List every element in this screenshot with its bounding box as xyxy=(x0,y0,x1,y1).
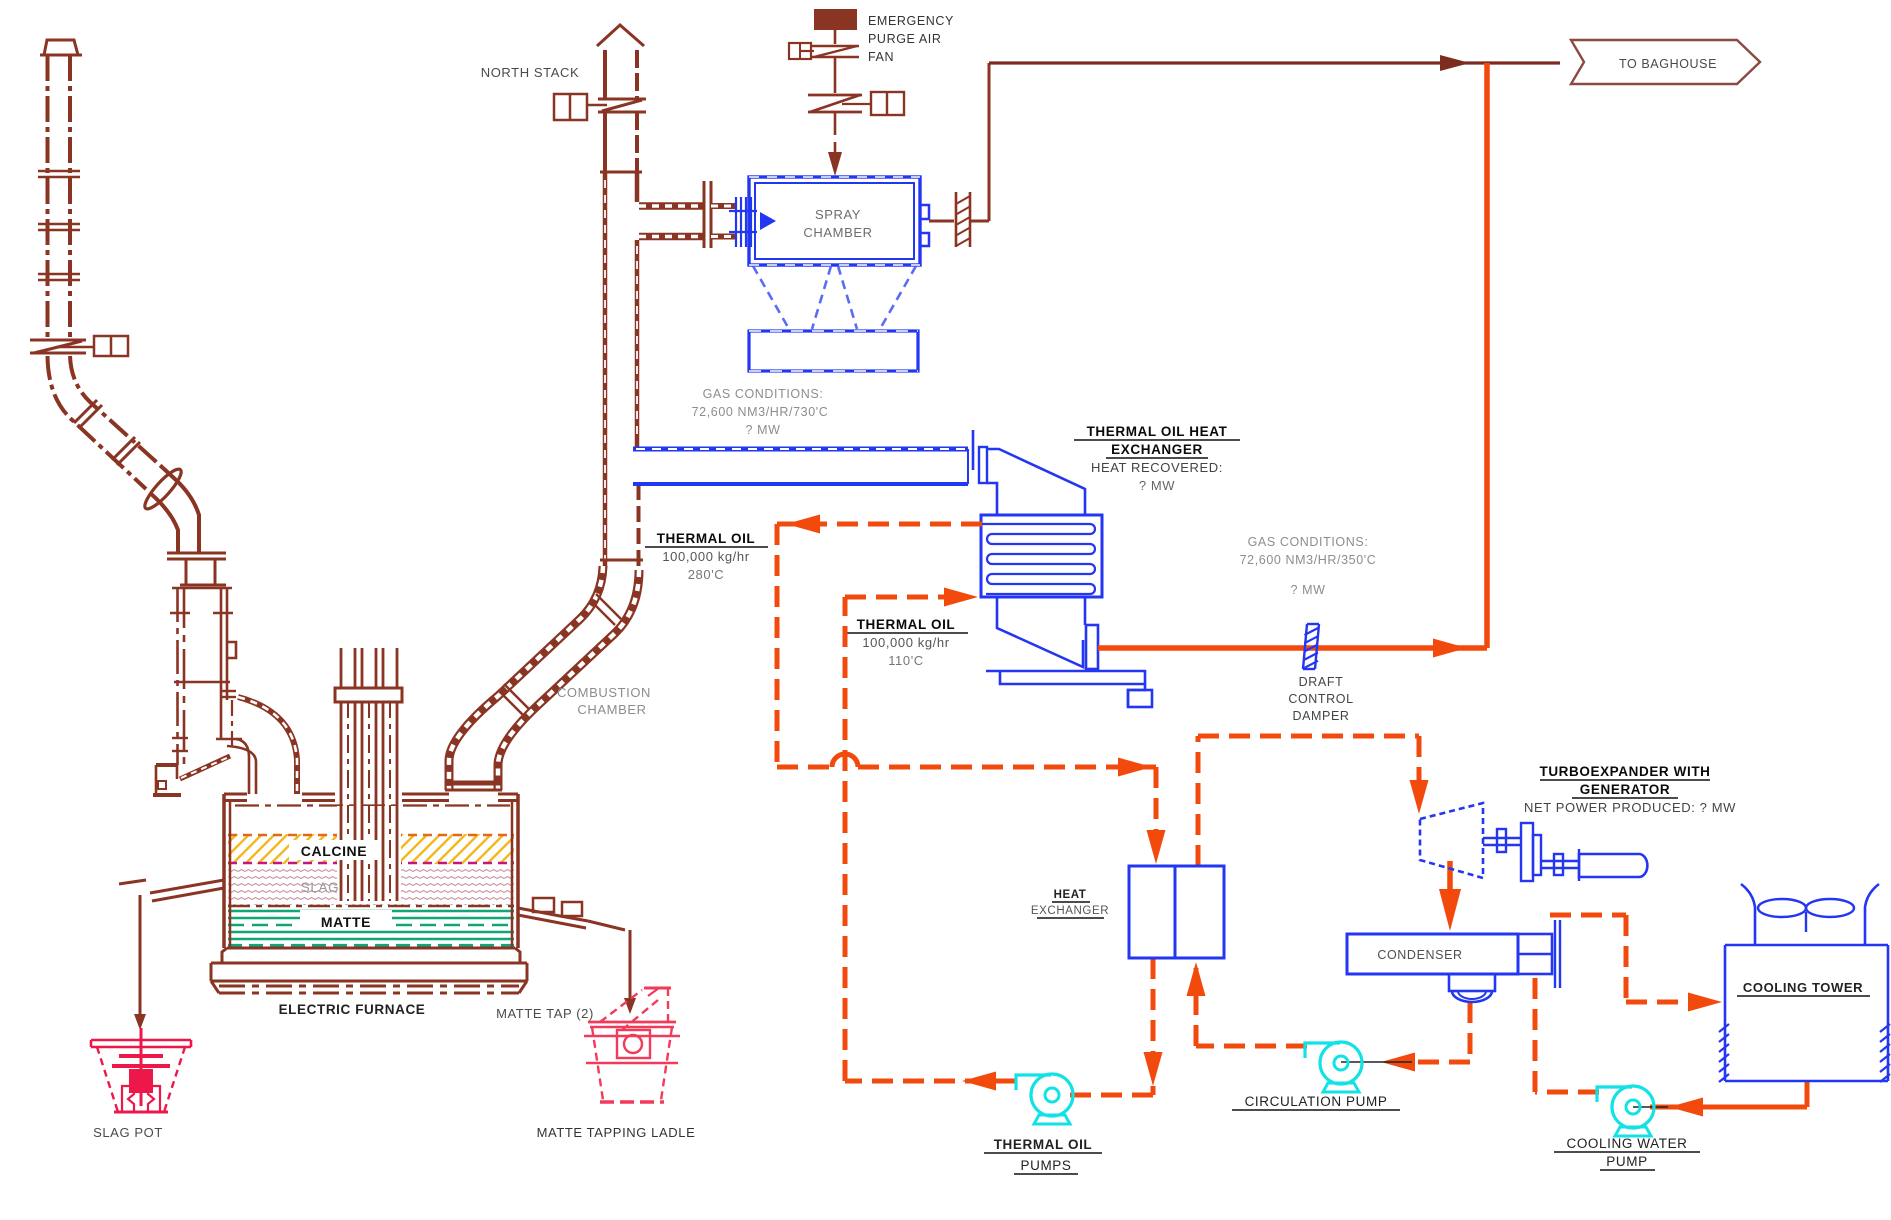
electric furnace body xyxy=(211,794,527,993)
label: turboexpander xyxy=(1524,764,1736,815)
label: circulation pump xyxy=(1232,1094,1400,1110)
duct to thermal oil heat exchanger xyxy=(633,430,987,484)
svg-text:CIRCULATION PUMP: CIRCULATION PUMP xyxy=(1245,1094,1388,1109)
cooling tower xyxy=(1719,884,1890,1082)
spray chamber xyxy=(729,177,929,265)
label: gas conditions 730 xyxy=(692,387,829,437)
svg-text:MATTE TAP (2): MATTE TAP (2) xyxy=(496,1006,594,1021)
svg-text:? MW: ? MW xyxy=(1139,478,1175,493)
oil return HX to thermal oil pumps xyxy=(1060,958,1163,1095)
svg-text:COMBUSTION: COMBUSTION xyxy=(557,685,651,700)
turbine exhaust to condenser xyxy=(1439,861,1461,931)
svg-text:? MW: ? MW xyxy=(1290,583,1325,597)
draft control damper xyxy=(1303,624,1319,669)
label: gas conditions 350 xyxy=(1240,535,1377,597)
cooling water pump discharge xyxy=(1535,976,1599,1092)
svg-text:NORTH STACK: NORTH STACK xyxy=(481,65,580,80)
svg-text:100,000 kg/hr: 100,000 kg/hr xyxy=(862,635,949,650)
hot water to cooling tower xyxy=(1550,915,1722,1012)
svg-text:TURBOEXPANDER WITH: TURBOEXPANDER WITH xyxy=(1539,764,1710,779)
label: thermal oil pumps xyxy=(984,1137,1102,1174)
svg-text:CONTROL: CONTROL xyxy=(1288,692,1353,706)
matte tapping ladle xyxy=(584,988,680,1102)
svg-text:SPRAY: SPRAY xyxy=(815,207,861,222)
svg-text:EXCHANGER: EXCHANGER xyxy=(1111,442,1203,457)
svg-text:FAN: FAN xyxy=(868,50,894,64)
svg-text:110'C: 110'C xyxy=(888,653,924,668)
thermal oil pump xyxy=(1016,1074,1073,1124)
svg-text:COOLING TOWER: COOLING TOWER xyxy=(1743,980,1863,995)
vapor line to turboexpander xyxy=(1198,736,1429,866)
label: matte tapping ladle xyxy=(537,1125,696,1140)
label: combustion chamber xyxy=(557,685,651,717)
svg-text:GAS CONDITIONS:: GAS CONDITIONS: xyxy=(1248,535,1369,549)
turboexpander with generator xyxy=(1420,803,1647,881)
tower basin to cooling water pump xyxy=(1633,1081,1807,1117)
svg-text:DAMPER: DAMPER xyxy=(1292,709,1349,723)
label: matte xyxy=(300,910,392,930)
matte tap line xyxy=(518,898,636,1014)
svg-text:NET POWER PRODUCED: ? MW: NET POWER PRODUCED: ? MW xyxy=(1524,800,1736,815)
label: cooling water pump xyxy=(1554,1136,1700,1170)
north stack xyxy=(554,25,646,568)
svg-text:CALCINE: CALCINE xyxy=(301,843,367,859)
to baghouse badge xyxy=(1571,40,1760,84)
combustion chamber duct xyxy=(445,560,643,790)
svg-text:ELECTRIC FURNACE: ELECTRIC FURNACE xyxy=(279,1002,426,1017)
svg-text:COOLING WATER: COOLING WATER xyxy=(1566,1136,1687,1151)
label: draft control damper xyxy=(1288,675,1353,723)
svg-text:MATTE: MATTE xyxy=(321,914,371,930)
svg-text:EXCHANGER: EXCHANGER xyxy=(1031,905,1109,917)
flue gas line to baghouse xyxy=(929,55,1560,247)
condenser xyxy=(1347,920,1560,1002)
svg-text:TO BAGHOUSE: TO BAGHOUSE xyxy=(1619,57,1717,71)
svg-text:THERMAL OIL: THERMAL OIL xyxy=(857,617,956,632)
electrodes xyxy=(335,648,402,903)
label: emergency fan xyxy=(868,14,954,64)
label: matte tap xyxy=(496,1006,594,1021)
label: thermal oil heat exchanger xyxy=(1074,424,1240,493)
svg-text:DRAFT: DRAFT xyxy=(1299,675,1344,689)
oil supply 280C to heat exchanger xyxy=(777,515,1166,865)
svg-text:THERMAL OIL: THERMAL OIL xyxy=(994,1137,1093,1152)
circulation pump xyxy=(1305,1042,1362,1092)
slag tap line xyxy=(119,880,224,1030)
label: slag xyxy=(301,880,339,895)
duct: north stack to spray chamber xyxy=(639,181,737,248)
label: heat exchanger xyxy=(1031,889,1109,918)
label: calcine xyxy=(289,840,379,860)
svg-text:GENERATOR: GENERATOR xyxy=(1580,782,1670,797)
condensate to circulation pump xyxy=(1341,1002,1470,1072)
circulation pump discharge to HX xyxy=(1187,962,1308,1046)
label: condenser xyxy=(1377,948,1462,962)
oil return 110C to exchanger coil xyxy=(845,588,1017,1091)
svg-text:PUMP: PUMP xyxy=(1606,1154,1647,1169)
svg-text:72,600 NM3/HR/730'C: 72,600 NM3/HR/730'C xyxy=(692,405,829,419)
svg-text:72,600 NM3/HR/350'C: 72,600 NM3/HR/350'C xyxy=(1240,553,1377,567)
svg-text:SLAG POT: SLAG POT xyxy=(93,1125,163,1140)
label: electric furnace xyxy=(279,1002,426,1017)
svg-text:THERMAL OIL HEAT: THERMAL OIL HEAT xyxy=(1087,424,1228,439)
label: spray chamber xyxy=(803,207,872,240)
svg-text:280'C: 280'C xyxy=(688,567,725,582)
svg-text:CONDENSER: CONDENSER xyxy=(1377,948,1462,962)
svg-text:CHAMBER: CHAMBER xyxy=(803,225,872,240)
svg-text:GAS CONDITIONS:: GAS CONDITIONS: xyxy=(703,387,824,401)
svg-text:MATTE TAPPING LADLE: MATTE TAPPING LADLE xyxy=(537,1125,696,1140)
svg-text:THERMAL OIL: THERMAL OIL xyxy=(657,531,756,546)
svg-text:HEAT: HEAT xyxy=(1054,889,1087,901)
svg-text:? MW: ? MW xyxy=(745,423,780,437)
label: slag pot xyxy=(93,1125,163,1140)
label: cooling tower xyxy=(1737,980,1870,996)
svg-text:CHAMBER: CHAMBER xyxy=(577,702,646,717)
left stack duct xyxy=(30,40,297,795)
slag pot xyxy=(91,1028,191,1112)
heat exchanger xyxy=(1129,866,1224,958)
svg-text:SLAG: SLAG xyxy=(301,880,339,895)
cooling water pump xyxy=(1597,1086,1654,1136)
svg-text:EMERGENCY: EMERGENCY xyxy=(868,14,954,28)
svg-text:100,000 kg/hr: 100,000 kg/hr xyxy=(662,549,749,564)
gas line exchanger to baghouse xyxy=(1098,63,1487,658)
spray chamber hoppers xyxy=(753,266,916,329)
label: thermal oil 280 xyxy=(645,531,768,582)
svg-text:PURGE AIR: PURGE AIR xyxy=(868,32,941,46)
label: thermal oil 110 xyxy=(845,617,968,668)
emergency purge air fan xyxy=(789,10,904,176)
thermal oil heat exchanger xyxy=(981,449,1152,707)
svg-text:PUMPS: PUMPS xyxy=(1020,1158,1071,1173)
label: north stack xyxy=(481,65,580,80)
spray chamber dust box xyxy=(749,331,918,371)
svg-text:HEAT RECOVERED:: HEAT RECOVERED: xyxy=(1091,460,1223,475)
